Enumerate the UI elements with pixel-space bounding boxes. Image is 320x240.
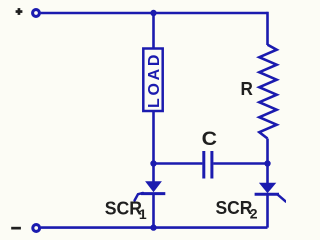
wire capacitor to node B (213, 162, 267, 165)
wire top node to LOAD (152, 13, 155, 49)
wire node B to SCR2 anode (266, 164, 269, 184)
svg-text:C: C (202, 129, 218, 150)
svg-text:LOAD: LOAD (146, 52, 163, 108)
svg-text:1: 1 (139, 206, 147, 222)
node B junction (R / C / SCR2) (264, 160, 270, 166)
node junction top (LOAD branch) (150, 10, 156, 16)
wire SCR1 cathode to bottom wire (152, 194, 155, 228)
minus label (-) (11, 227, 21, 230)
capacitor C plates (204, 151, 212, 179)
svg-text:2: 2 (250, 205, 258, 221)
SCR2 thyristor (255, 183, 286, 202)
svg-text:R: R (241, 78, 254, 99)
bottom wire (41, 226, 268, 229)
node A junction (LOAD / C / SCR1) (150, 160, 156, 166)
wire SCR2 cathode to bottom corner (266, 194, 269, 227)
negative terminal (33, 225, 40, 232)
wire node A to SCR1 anode (152, 164, 155, 183)
positive terminal (33, 10, 40, 17)
wire node A to capacitor (154, 162, 203, 165)
LOAD box (143, 49, 162, 112)
plus label (+) (16, 8, 23, 15)
right branch wire top corner to resistor (267, 13, 268, 45)
resistor R zigzag (259, 45, 276, 139)
wire resistor to node B (266, 139, 269, 166)
svg-text:SCR: SCR (216, 197, 253, 218)
svg-text:SCR: SCR (105, 197, 143, 218)
bottom node junction (150, 224, 156, 230)
wire LOAD to node A (152, 111, 155, 165)
top wire (41, 12, 268, 15)
SCR1 thyristor (135, 181, 166, 200)
